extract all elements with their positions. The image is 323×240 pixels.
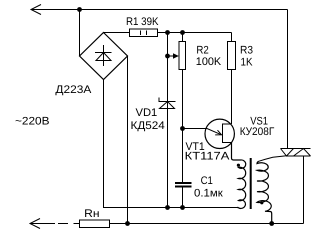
svg-text:Rн: Rн	[84, 208, 99, 220]
diode symbol inside bridge	[95, 45, 112, 66]
svg-text:R3: R3	[240, 44, 253, 56]
wire emitter	[183, 129, 222, 135]
wire secondary top to triac gate	[259, 156, 287, 162]
svg-text:R1 39K: R1 39K	[126, 16, 159, 28]
svg-text:~220В: ~220В	[15, 116, 50, 128]
wiper arrow of R2	[165, 53, 179, 58]
polarity dot secondary	[260, 201, 263, 204]
resistor R3 1K	[228, 33, 236, 125]
svg-text:КД524: КД524	[131, 120, 165, 132]
resistor R1 39K	[130, 29, 158, 37]
resistor R2 100K potentiometer body	[179, 33, 186, 70]
wire top rail down to bridge left corner	[79, 10, 81, 57]
svg-text:VD1: VD1	[136, 107, 158, 119]
arrow left end of top rail	[31, 5, 41, 15]
svg-text:Д223А: Д223А	[55, 84, 92, 96]
svg-text:1K: 1K	[241, 57, 254, 69]
bridge rectifier diamond Д223А	[80, 33, 128, 80]
wire VD1 line vertical	[167, 33, 169, 208]
wire right rail to triac MT2	[287, 10, 289, 149]
node dot secondary to rail2	[269, 221, 274, 226]
wire R1 to R3 corner	[158, 32, 232, 34]
capacitor C1 plates	[175, 183, 192, 187]
wire triac MT1 down to rail2	[303, 156, 305, 224]
transformer secondary winding	[257, 161, 272, 223]
transistor VT1 КТ117А circle	[205, 119, 234, 148]
emitter arrowhead	[215, 130, 221, 135]
polarity dot primary	[237, 164, 240, 167]
base bar of VT1	[222, 124, 224, 144]
wire top rail	[31, 9, 288, 11]
svg-text:C1: C1	[201, 175, 213, 187]
node dot R2 top	[180, 30, 185, 35]
node junction dot top rail to bridge	[77, 7, 82, 12]
wire bridge right corner down to rail2	[127, 56, 129, 224]
resistor Rн load	[80, 220, 110, 228]
node dot VD1 to rail1	[165, 205, 170, 210]
wire rail2 right	[110, 223, 304, 225]
svg-text:0.1мк: 0.1мк	[194, 188, 223, 200]
svg-text:КУ208Г: КУ208Г	[240, 126, 275, 138]
svg-text:R2: R2	[196, 44, 208, 56]
triac VS1 КУ208Г	[281, 149, 311, 157]
arrow left end of rail2	[30, 219, 40, 229]
wire bridge top corner to R1	[104, 32, 130, 34]
base lead top	[223, 123, 232, 125]
node dot load line	[125, 221, 130, 226]
wire R2 bottom to C1 to rail	[182, 70, 184, 208]
transformer primary winding from VT1 base	[232, 143, 246, 209]
node dot R1 out / VD1 line	[165, 30, 170, 35]
transformer core	[250, 158, 252, 209]
wire rail2 left with load	[30, 223, 80, 225]
zener diode VD1 КД524	[159, 98, 176, 109]
base lead bottom	[223, 142, 232, 144]
svg-text:100K: 100K	[196, 56, 222, 68]
svg-text:КТ117А: КТ117А	[185, 151, 230, 163]
node dot emitter junction	[180, 126, 185, 131]
node dot C1 to rail1	[180, 205, 185, 210]
wire bridge bottom to rail1	[104, 80, 238, 208]
